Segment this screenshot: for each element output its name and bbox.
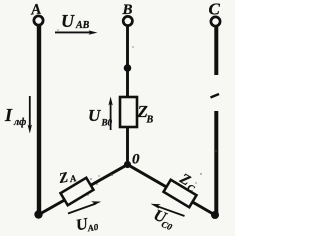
voltage arrow U_B0 (points up) (110, 102, 112, 130)
terminal circle B (123, 16, 132, 25)
junction dot C-leg bottom (211, 211, 219, 219)
svg-text:В: В (146, 115, 154, 126)
impedance Z_B box (120, 97, 137, 127)
terminal circle C (211, 17, 220, 26)
svg-text:I: I (4, 105, 13, 125)
node O dot (124, 161, 131, 168)
arrow U_AB (points right) (55, 31, 92, 33)
svg-text:А: А (68, 174, 77, 185)
scan speckles (57, 29, 216, 195)
label U_A0 (75, 214, 100, 236)
label Z_C (175, 170, 200, 195)
wire: diagonal O to C-leg (128, 165, 216, 216)
svg-text:Z: Z (57, 170, 70, 187)
wire: phase A vertical (37, 26, 41, 216)
svg-text:U: U (88, 106, 101, 125)
wire: diagonal O to A-leg (38, 165, 128, 216)
svg-text:0: 0 (132, 152, 140, 168)
break dash on phase C (211, 94, 220, 98)
impedance Z_A box (61, 178, 94, 205)
label U_C0 (150, 207, 177, 233)
wire: phase C lower (below break) (214, 111, 218, 215)
svg-text:лф: лф (13, 117, 26, 128)
svg-text:С0: С0 (160, 219, 174, 232)
wire: phase C upper (above break) (214, 27, 218, 76)
junction dot on phase B (124, 64, 132, 72)
impedance Z_C box (164, 180, 197, 207)
svg-text:А0: А0 (86, 222, 100, 234)
current arrow I (points down) (29, 96, 31, 128)
junction dot A-leg bottom (34, 210, 42, 218)
wire: phase B lower (126, 127, 129, 165)
voltage arrow U_A0 (points up-right) (68, 204, 96, 214)
svg-text:U: U (61, 11, 75, 31)
voltage arrow U_C0 (points up-left) (156, 206, 185, 216)
svg-text:АВ: АВ (75, 20, 90, 31)
wire: phase B upper (126, 26, 129, 98)
terminal circle A (34, 16, 43, 25)
